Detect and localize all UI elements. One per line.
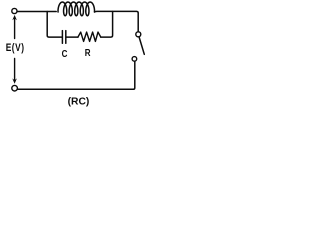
box left vertical wire [47,12,61,38]
terminal top-left [12,8,17,13]
arrow down shaft (E source, lower) [14,59,16,81]
wire coil to top-right corner, down to switch [95,11,139,31]
resistor R zigzag [78,32,101,41]
wire switch down to bottom-right corner and bottom wire [18,61,135,89]
terminal bottom-left [12,85,18,91]
capacitor C left plate [61,31,63,44]
svg-text:E(V): E(V) [6,42,25,54]
inductor L coil [58,2,94,16]
capacitor C right plate [65,31,67,44]
arrow up head [12,15,17,20]
arrow down head [12,78,17,83]
switch lever [139,37,144,54]
switch top contact [136,32,141,37]
wire top-left to coil [17,11,56,13]
svg-text:C: C [62,48,68,59]
svg-text:(RC): (RC) [68,97,90,108]
wire capacitor to resistor [67,36,78,38]
arrow up shaft (E source, upper) [14,18,16,39]
wire resistor to box right vertical [101,12,113,38]
svg-text:R: R [85,47,91,58]
switch bottom contact [132,57,137,62]
